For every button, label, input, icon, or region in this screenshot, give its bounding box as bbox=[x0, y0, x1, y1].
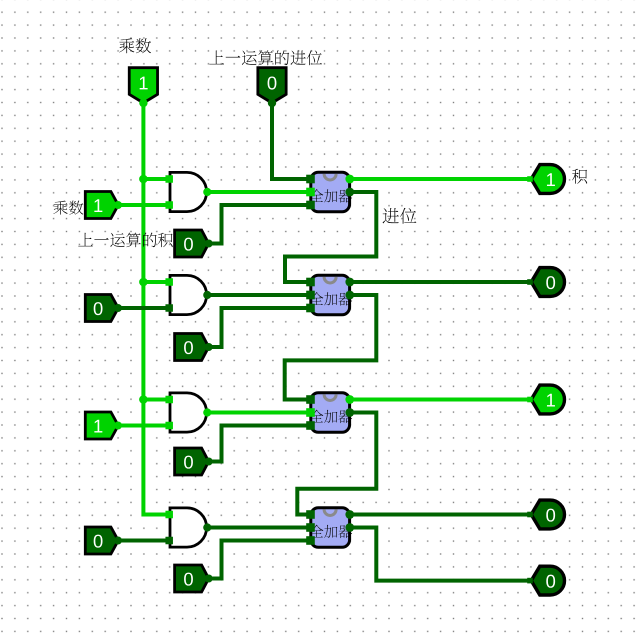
port: U4 carry out bbox=[345, 291, 354, 300]
label 全加器 on U4 bbox=[310, 292, 352, 305]
port: U4 carry-in bbox=[306, 278, 315, 287]
junction: wire end at 乘数 pin bbox=[139, 99, 147, 107]
junction: wire end at multiplicand pin 2 bbox=[114, 422, 122, 430]
port: AND U7 output bbox=[203, 523, 211, 531]
wire: AND U1 output to full-adder U2 input A bbox=[207, 190, 310, 194]
wire: U6 carry-out to U8 carry-in bbox=[297, 413, 376, 515]
label 上一运算的进位 bbox=[209, 50, 322, 65]
full-adder U8 (subcircuit 全加器) body bbox=[311, 508, 350, 548]
port: U8 carry out bbox=[345, 523, 354, 532]
port: U2 input B bbox=[306, 201, 315, 210]
port: U4 input B bbox=[306, 304, 315, 313]
junction: wire end at multiplicand pin 3 bbox=[114, 537, 122, 545]
junction: wire end at output pin 3 bbox=[527, 397, 533, 403]
port: U2 carry out bbox=[345, 188, 354, 197]
port: AND U3 input2 bbox=[165, 304, 173, 312]
AND gate U1 body bbox=[170, 172, 207, 211]
wire: multiplicand bit pin to AND U5 input2 bbox=[118, 424, 170, 428]
wire: bus branch to AND U5 input1 bbox=[143, 398, 170, 402]
port: U2 input A bbox=[306, 188, 315, 197]
input pin multiplicand bit 0 = 1 bbox=[85, 192, 118, 219]
wire: previous-product bit pin to full-adder U4 input B bbox=[209, 308, 311, 347]
junction: bus tap row 2 bbox=[139, 278, 148, 287]
wire: multiplier bus from pin 乘数 down to AND U7 input1 bbox=[143, 103, 170, 515]
output pin bit 0 = 1 bbox=[531, 165, 564, 194]
junction: wire end at 上一运算的积 pin 2 bbox=[205, 458, 213, 466]
wire: AND U3 output to full-adder U4 input A bbox=[207, 293, 310, 297]
label 乘数 (top pin) bbox=[119, 38, 151, 53]
input pin 上一运算的进位 (carry-in = 0) bbox=[258, 68, 286, 103]
junction: wire end at output pin 1 bbox=[527, 176, 533, 182]
wire: full-adder U6 sum to output pin bbox=[350, 398, 532, 402]
wire: carry-in pin to full-adder U2 Cin bbox=[272, 103, 311, 179]
output pin bit 2 = 1 bbox=[531, 385, 564, 414]
input pin 上一运算的积 bit 1 = 0 bbox=[175, 334, 209, 361]
wire: U8 carry-out to bottom output pin bbox=[350, 528, 532, 581]
label 积 bbox=[572, 169, 587, 184]
junction: wire end at carry-in pin bbox=[268, 99, 276, 107]
port: U8 input B bbox=[306, 536, 315, 545]
junction: wire end at multiplicand pin 1 bbox=[114, 304, 122, 312]
junction: wire end at output pin 4 bbox=[527, 512, 533, 518]
port: U6 carry-in bbox=[306, 395, 315, 404]
port: U8 sum out bbox=[345, 510, 354, 519]
port: U6 sum out bbox=[345, 395, 354, 404]
junction: wire end at multiplicand pin 0 bbox=[114, 201, 122, 209]
label 进位 bbox=[383, 208, 417, 224]
port: AND U5 input2 bbox=[165, 422, 173, 430]
port: AND U3 output bbox=[203, 291, 211, 299]
port: AND U7 input1 bbox=[165, 511, 173, 519]
port: U8 input A bbox=[306, 523, 315, 532]
input pin 上一运算的积 bit 2 = 0 bbox=[175, 448, 209, 475]
wire: multiplicand bit pin to AND U7 input2 bbox=[118, 539, 170, 543]
junction: bus tap row 3 bbox=[139, 395, 148, 404]
port: AND U5 output bbox=[203, 408, 211, 416]
wire: U4 carry-out to U6 carry-in bbox=[285, 295, 377, 400]
port: U4 sum out bbox=[345, 278, 354, 287]
port: AND U1 input2 bbox=[165, 201, 173, 209]
wire: previous-product bit pin to full-adder U6 input B bbox=[209, 426, 311, 462]
full-adder U6 (subcircuit 全加器) body bbox=[311, 393, 350, 433]
junction: bus tap row 1 bbox=[139, 175, 148, 184]
full-adder U2 (subcircuit 全加器) body bbox=[311, 172, 350, 212]
wire: bus branch to AND U1 input1 bbox=[143, 177, 170, 181]
port: U2 carry-in bbox=[306, 175, 315, 184]
AND gate U5 body bbox=[170, 393, 207, 432]
label 全加器 on U8 bbox=[310, 525, 352, 538]
input pin multiplicand bit 1 = 0 bbox=[85, 295, 118, 322]
port: U4 input A bbox=[306, 291, 315, 300]
input pin multiplicand bit 2 = 1 bbox=[85, 412, 118, 439]
wire: U2 carry-out to U4 carry-in bbox=[285, 192, 376, 282]
wire: previous-product bit pin to full-adder U2 input B bbox=[209, 205, 311, 244]
junction: wire end at 上一运算的积 pin 0 bbox=[205, 240, 213, 248]
wire: full-adder U2 sum to output pin bbox=[350, 177, 532, 181]
output pin bit 3 = 0 bbox=[531, 500, 564, 529]
label 全加器 on U6 bbox=[310, 410, 352, 423]
port: AND U1 output bbox=[203, 188, 211, 196]
port: U6 input A bbox=[306, 408, 315, 417]
AND gate U3 body bbox=[170, 275, 207, 314]
wire: previous-product bit pin to full-adder U8 input B bbox=[209, 541, 311, 579]
wire: multiplicand bit pin to AND U1 input2 bbox=[118, 203, 170, 207]
input pin 上一运算的积 bit 3 = 0 bbox=[175, 565, 209, 592]
wire: bus branch to AND U3 input1 bbox=[143, 280, 170, 284]
label 乘数 (left pin) bbox=[53, 201, 83, 215]
port: AND U1 input1 bbox=[165, 175, 173, 183]
label 全加器 on U2 bbox=[310, 189, 352, 202]
wire: AND U5 output to full-adder U6 input A bbox=[207, 411, 310, 415]
port: U6 carry out bbox=[345, 408, 354, 417]
wire: full-adder U4 sum to output pin bbox=[350, 280, 532, 284]
AND gate U7 body bbox=[170, 508, 207, 547]
output pin bit 4 = 0 bbox=[531, 566, 564, 595]
label 上一运算的积 bbox=[78, 233, 172, 248]
junction: wire end at 上一运算的积 pin 3 bbox=[205, 575, 213, 583]
port: U8 carry-in bbox=[306, 510, 315, 519]
junction: wire end at 上一运算的积 pin 1 bbox=[205, 343, 213, 351]
wire: AND U7 output to full-adder U8 input A bbox=[207, 526, 310, 530]
wire: full-adder U8 sum to output pin bbox=[350, 513, 532, 517]
junction: wire end at output pin 5 bbox=[527, 578, 533, 584]
input pin 乘数 (multiplier bit = 1) bbox=[129, 68, 157, 103]
junction: wire end at output pin 2 bbox=[527, 279, 533, 285]
full-adder U4 (subcircuit 全加器) body bbox=[311, 275, 350, 315]
port: AND U7 input2 bbox=[165, 537, 173, 545]
wire: multiplicand bit pin to AND U3 input2 bbox=[118, 306, 170, 310]
port: AND U3 input1 bbox=[165, 278, 173, 286]
port: U2 sum out bbox=[345, 175, 354, 184]
port: U6 input B bbox=[306, 421, 315, 430]
port: AND U5 input1 bbox=[165, 396, 173, 404]
input pin multiplicand bit 3 = 0 bbox=[85, 527, 118, 554]
input pin 上一运算的积 bit 0 = 0 bbox=[175, 230, 209, 257]
output pin bit 1 = 0 bbox=[531, 268, 564, 297]
